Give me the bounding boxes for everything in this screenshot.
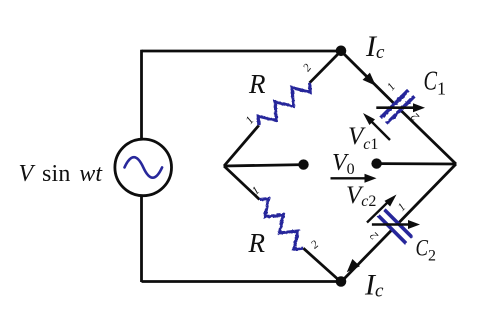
node middle right xyxy=(371,158,381,168)
svg-text:1: 1 xyxy=(244,114,257,126)
Vc1 arrow xyxy=(363,113,390,140)
svg-text:2: 2 xyxy=(409,110,422,123)
voltage source sine symbol xyxy=(125,157,163,178)
svg-text:V0: V0 xyxy=(332,150,355,178)
voltage source circle xyxy=(115,139,172,196)
svg-text:Ic: Ic xyxy=(365,30,385,63)
wire bottom-right edge upper segment xyxy=(398,164,456,223)
svg-text:R: R xyxy=(248,69,266,99)
svg-text:2: 2 xyxy=(301,62,314,74)
current arrow Ic bottom xyxy=(347,259,360,272)
capacitor C2 plate 2 xyxy=(378,216,406,244)
svg-text:2: 2 xyxy=(309,238,321,251)
svg-text:2: 2 xyxy=(368,229,381,242)
wire left rail lower xyxy=(140,195,143,282)
wire top-right edge lower segment xyxy=(401,110,457,164)
capacitor C2 plate 1 xyxy=(384,210,412,238)
svg-text:C2: C2 xyxy=(416,236,437,265)
wire bottom rail xyxy=(142,280,342,283)
svg-text:R: R xyxy=(248,228,266,258)
svg-text:1: 1 xyxy=(385,81,398,93)
wire bottom-right edge lower segment xyxy=(341,230,392,283)
wire middle right xyxy=(377,162,456,165)
wire bottom-left edge upper segment xyxy=(224,166,260,200)
capacitor C1 plate 1 xyxy=(381,90,409,118)
current arrow Ic top xyxy=(363,73,376,86)
svg-text:Ic: Ic xyxy=(364,269,384,302)
resistor R1 (top-left) xyxy=(258,83,310,126)
resistor R2 (bottom-left) xyxy=(260,199,304,250)
node top junction xyxy=(336,46,347,57)
C2 variable arrow xyxy=(372,220,420,229)
svg-text:1: 1 xyxy=(250,185,262,198)
wire top-right edge upper segment xyxy=(341,51,395,104)
wire top rail xyxy=(142,50,342,53)
wire middle left xyxy=(224,165,304,166)
node middle left xyxy=(298,159,308,169)
svg-text:1: 1 xyxy=(396,201,409,214)
wire top-left edge lower segment xyxy=(224,125,259,166)
svg-text:Vc2: Vc2 xyxy=(346,182,376,210)
Vc2 arrow xyxy=(367,195,397,223)
svg-text:Vc1: Vc1 xyxy=(348,123,378,153)
wire top-left edge upper segment xyxy=(310,51,341,83)
wire left rail upper xyxy=(140,50,143,140)
node bottom junction xyxy=(336,276,347,287)
svg-text:C1: C1 xyxy=(424,66,447,99)
V0 arrow xyxy=(331,174,377,183)
C1 variable arrow xyxy=(376,103,425,112)
wire bottom-left edge lower segment xyxy=(303,248,341,282)
capacitor C1 plate 2 xyxy=(387,96,415,124)
svg-text:V sin wt: V sin wt xyxy=(19,161,104,187)
